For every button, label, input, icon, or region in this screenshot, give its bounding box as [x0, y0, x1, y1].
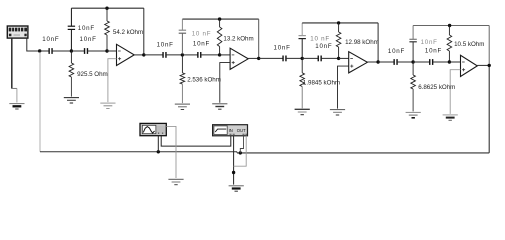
wire C41 to node A4	[397, 61, 413, 63]
wire node B2 to op-amp	[220, 54, 231, 56]
ground (stage3 R3g)	[295, 109, 310, 114]
value label '10nF' stage1	[78, 25, 95, 32]
svg-text:10nF: 10nF	[421, 39, 438, 46]
wire bottom rail (input net)	[40, 152, 237, 153]
wire scope pin2 to bode IN	[161, 136, 231, 146]
svg-text:10nF: 10nF	[274, 44, 291, 51]
capacitor C21 10nF (series input)	[163, 52, 166, 58]
value label '10nF' stage2	[157, 41, 174, 48]
svg-text:925.5 Ohm: 925.5 Ohm	[77, 71, 108, 78]
ground (U1 + input)	[100, 103, 115, 108]
wire bode IN- to ground	[233, 136, 235, 185]
wire jog to ground	[11, 88, 17, 102]
value label '10nF' stage1	[42, 36, 59, 43]
resistor R2g (node A2 to ground)	[180, 55, 185, 103]
value label '10nF' stage4	[421, 39, 438, 46]
ground (U4 + input)	[443, 115, 458, 120]
svg-text:1.9845 kOhm: 1.9845 kOhm	[303, 80, 340, 87]
wire scope pin1 down	[157, 136, 159, 152]
svg-text:10nF: 10nF	[42, 36, 59, 43]
value label '10nF' stage2	[193, 40, 210, 47]
value label '12.98 kOhm' stage3	[345, 39, 379, 46]
svg-text:10.5 kOhm: 10.5 kOhm	[454, 41, 484, 48]
value label '10nF' stage3	[315, 43, 332, 50]
wire C11 to node A1	[52, 50, 71, 52]
value label '10 nF' stage3	[310, 35, 330, 42]
wire bottom rail (output net)	[237, 152, 489, 154]
svg-text:10nF: 10nF	[157, 41, 174, 48]
svg-text:IN: IN	[229, 128, 233, 133]
svg-text:10nF: 10nF	[80, 36, 97, 43]
wire U4 output	[477, 64, 489, 66]
wire V1 pin+ to input node	[27, 38, 40, 51]
wire C42 to node B4	[433, 61, 450, 63]
svg-text:2.536 kOhm: 2.536 kOhm	[187, 76, 221, 83]
ground (stage4 R4g)	[406, 112, 421, 117]
node OUT2	[257, 57, 260, 60]
op-amp U2	[230, 48, 248, 69]
resistor R4f (feedback)	[447, 26, 452, 63]
node B1	[105, 49, 108, 52]
capacitor C4f (feedback to rail)	[409, 26, 416, 61]
oscilloscope XSC1	[140, 123, 166, 135]
capacitor C1f (feedback to rail)	[68, 8, 75, 50]
node OUT3	[376, 60, 379, 63]
wire node A3 to C32	[302, 57, 318, 59]
wire C22 to node B2	[201, 54, 220, 56]
wire stage1 input	[40, 50, 49, 52]
wire stage2 input	[144, 54, 163, 56]
op-amp U4	[461, 55, 478, 76]
wire C12 to node B1	[88, 50, 108, 52]
wire bode OUT- to ground jog	[234, 136, 247, 166]
ground (U2 + input)	[212, 104, 227, 109]
svg-text:10 nF: 10 nF	[310, 35, 330, 42]
wire feedback rail stage4	[413, 26, 489, 66]
wire U2 output	[248, 57, 259, 59]
capacitor C31 10nF (series input)	[283, 56, 286, 62]
node A4	[411, 60, 414, 63]
resistor R2f (feedback)	[217, 19, 222, 55]
svg-text:10nF: 10nF	[78, 25, 95, 32]
ground (scope)	[168, 179, 183, 184]
node rail-R2f junction	[218, 17, 221, 20]
node OUT1	[142, 53, 145, 56]
ground (source)	[9, 104, 24, 109]
ground (bode)	[229, 186, 244, 191]
value label '10nF' stage1	[80, 36, 97, 43]
capacitor C12 (series)	[85, 48, 88, 54]
wire op-amp U3 + input to ground	[338, 66, 349, 109]
resistor R3g (node A3 to ground)	[300, 58, 305, 108]
value label '10.5 kOhm' stage4	[454, 41, 484, 48]
AC source V1 (function generator box)	[7, 26, 28, 38]
node B2	[218, 53, 221, 56]
wire op-amp U1 + input to ground	[108, 59, 117, 102]
wire scope side terminal to ground	[166, 126, 176, 178]
op-amp U1	[117, 44, 135, 65]
node rail-R4f junction	[448, 24, 451, 27]
value label '13.2 kOhm' stage2	[223, 35, 253, 42]
svg-text:54.2 kOhm: 54.2 kOhm	[113, 29, 143, 36]
wire stage4 input	[378, 61, 394, 63]
capacitor C22 (series)	[198, 52, 201, 58]
value label '10nF' stage3	[274, 44, 291, 51]
wire C21 to node A2	[166, 54, 182, 56]
op-amp U3	[349, 52, 368, 73]
svg-text:10nF: 10nF	[193, 40, 210, 47]
ground (stage2 R2g)	[175, 104, 190, 109]
wire bode OUT+ down to output rail	[240, 136, 243, 153]
wire node B4 to op-amp	[449, 61, 460, 63]
node B4	[448, 60, 451, 63]
node rail-R3f junction	[337, 21, 340, 24]
capacitor C32 (series)	[318, 56, 321, 62]
node A1	[70, 49, 73, 52]
bode plotter XBP1	[213, 125, 248, 136]
resistor R4g (node A4 to ground)	[411, 62, 416, 111]
resistor R1f (feedback)	[105, 8, 110, 51]
value label '925.5 Ohm' stage1	[77, 71, 108, 78]
svg-text:10nF: 10nF	[425, 48, 442, 55]
wire node A4 to C42	[413, 61, 430, 63]
value label '1.9845 kOhm' stage3	[303, 80, 340, 87]
wire input tap down	[39, 52, 41, 152]
ground (U3 + input)	[330, 110, 345, 115]
wire V1 pin- down	[11, 38, 13, 88]
wire U1 output	[134, 54, 144, 56]
capacitor C3f (feedback to rail)	[299, 23, 306, 57]
capacitor C42 (series)	[430, 59, 433, 65]
node B3	[337, 57, 340, 60]
wire node B3 to op-amp	[339, 57, 349, 59]
wire feedback rail stage1	[71, 8, 143, 55]
wire output down	[488, 67, 490, 153]
wire node A1 to C12	[71, 50, 84, 52]
svg-text:10nF: 10nF	[315, 43, 332, 50]
wire stage3 input	[259, 57, 283, 59]
svg-text:10 nF: 10 nF	[192, 31, 212, 38]
wire feedback rail stage3	[302, 23, 378, 62]
svg-text:10nF: 10nF	[388, 48, 405, 55]
value label '10 nF' stage2	[192, 31, 212, 38]
node rail-R1f junction	[105, 7, 108, 10]
resistor R3f (feedback)	[336, 23, 341, 59]
node bode-OUT tap	[239, 151, 242, 154]
value label '2.536 kOhm' stage2	[187, 76, 221, 83]
value label '54.2 kOhm' stage1	[113, 29, 143, 36]
svg-text:OUT: OUT	[237, 128, 246, 133]
svg-text:12.98 kOhm: 12.98 kOhm	[345, 39, 379, 46]
wire U3 output	[367, 61, 378, 63]
wire node B1 to op-amp	[107, 50, 117, 52]
wire op-amp U4 + input to ground	[450, 70, 460, 114]
capacitor C11 10nF (series input)	[49, 48, 52, 54]
wire C31 to node A3	[286, 57, 302, 59]
resistor R1g (node A1 to ground)	[69, 51, 74, 97]
value label '6.8625 kOhm' stage4	[418, 84, 455, 91]
ground (stage1 R1g)	[64, 98, 79, 103]
wire node A2 to C22	[182, 54, 197, 56]
node IN (junction)	[38, 49, 41, 52]
capacitor C2f (feedback to rail)	[179, 19, 186, 54]
wire feedback rail stage2	[182, 19, 258, 58]
node OUT4	[488, 64, 491, 67]
node scope-A tap	[157, 150, 160, 153]
capacitor C41 10nF (series input)	[394, 59, 397, 65]
value label '10nF' stage4	[388, 48, 405, 55]
node bode ground junction	[232, 171, 235, 174]
node A3	[301, 57, 304, 60]
wire C32 to node B3	[321, 57, 338, 59]
value label '10nF' stage4	[425, 48, 442, 55]
wire op-amp U2 + input to ground	[220, 63, 230, 103]
node A2	[181, 53, 184, 56]
svg-text:13.2 kOhm: 13.2 kOhm	[223, 35, 253, 42]
